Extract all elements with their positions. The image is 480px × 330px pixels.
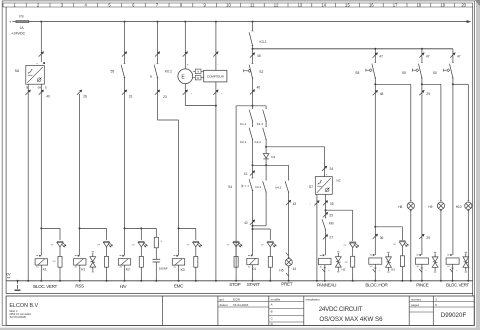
svg-text:16: 16 bbox=[369, 2, 374, 7]
junction bbox=[40, 227, 42, 229]
svg-text:S9: S9 bbox=[402, 71, 406, 75]
relay coil K2 bbox=[118, 259, 130, 265]
resistor K3 bbox=[194, 256, 198, 267]
svg-text:numero: numero bbox=[411, 297, 422, 301]
junction bbox=[124, 21, 126, 23]
wire K3 top bbox=[157, 22, 159, 64]
LED K3 bbox=[193, 240, 199, 242]
wire motor top bbox=[184, 22, 186, 69]
suppressor H2 bbox=[337, 253, 339, 257]
svg-text:C: C bbox=[271, 317, 273, 321]
svg-text:47: 47 bbox=[426, 55, 430, 59]
svg-text:K2.2: K2.2 bbox=[255, 140, 262, 144]
relay coil K8 bbox=[446, 258, 459, 264]
contact K2.1 bbox=[252, 126, 253, 128]
svg-text:COMPTEUR: COMPTEUR bbox=[207, 75, 225, 79]
junction led branch bbox=[374, 226, 376, 228]
junction bbox=[235, 280, 237, 282]
suppressor bbox=[465, 253, 467, 257]
slash mark bbox=[374, 267, 376, 269]
svg-text:Tel 070-00005: Tel 070-00005 bbox=[9, 315, 26, 319]
marks above H5 bbox=[286, 253, 289, 256]
svg-text:47: 47 bbox=[379, 55, 383, 59]
COMPTEUR box bbox=[204, 70, 227, 82]
xref arrow bbox=[39, 90, 44, 95]
svg-text:B: B bbox=[150, 74, 152, 78]
suppressor bbox=[434, 253, 436, 257]
svg-text:27: 27 bbox=[330, 236, 334, 240]
svg-text:K0.2: K0.2 bbox=[165, 70, 172, 74]
suppressor bbox=[388, 253, 390, 257]
wire jog bbox=[158, 119, 179, 121]
wire K3.1 bbox=[252, 22, 254, 31]
rail 2 (after K3.1) bbox=[253, 48, 453, 50]
junction bbox=[324, 280, 326, 282]
xref arrow 34 bbox=[322, 166, 327, 171]
switch S0 bbox=[452, 62, 454, 64]
wire motor bottom bbox=[184, 84, 186, 106]
xref arrow bbox=[314, 201, 319, 206]
junction lamp branch bbox=[452, 83, 454, 85]
relay coil K3 bbox=[172, 259, 184, 265]
pret led branch bbox=[252, 228, 254, 230]
svg-text:K1.2: K1.2 bbox=[257, 122, 264, 126]
svg-text:29: 29 bbox=[426, 236, 430, 240]
svg-text:46: 46 bbox=[257, 86, 261, 90]
wire from SA 0L bbox=[27, 84, 29, 281]
branch wire to K1 LED bbox=[41, 227, 60, 229]
svg-text:FS: FS bbox=[19, 15, 24, 19]
svg-text:15: 15 bbox=[345, 2, 350, 7]
split junction bbox=[252, 105, 254, 107]
svg-text:H2: H2 bbox=[342, 268, 346, 272]
contact K1.2 bbox=[266, 108, 267, 110]
svg-text:40: 40 bbox=[46, 94, 50, 98]
svg-text:D: D bbox=[271, 322, 273, 326]
junction bbox=[252, 225, 254, 227]
svg-text:H9: H9 bbox=[428, 205, 432, 209]
junction bbox=[252, 280, 254, 282]
svg-text:100NF: 100NF bbox=[159, 267, 168, 271]
contact branch left bbox=[252, 106, 254, 109]
svg-text:-: - bbox=[218, 62, 219, 66]
power supply SA bbox=[26, 66, 45, 85]
junction bbox=[178, 280, 180, 282]
contact k4.2 bbox=[288, 179, 289, 181]
svg-text:get.: get. bbox=[220, 297, 225, 301]
contact K3.1 bbox=[252, 30, 254, 32]
sensor box S7 bbox=[315, 177, 332, 195]
relay coil K4 bbox=[247, 258, 258, 264]
wire below H5 bbox=[288, 266, 290, 281]
branch wire to K3 LED bbox=[179, 227, 196, 229]
lamp H10 bbox=[465, 202, 472, 209]
0V rail bbox=[6, 280, 473, 282]
xref arrow bbox=[373, 90, 378, 95]
svg-text:15-04-2016: 15-04-2016 bbox=[233, 303, 249, 307]
wire K2 mid bbox=[124, 78, 126, 256]
junction bbox=[316, 280, 318, 282]
contact KM bbox=[325, 217, 326, 219]
svg-text:44: 44 bbox=[293, 267, 297, 271]
xref arrow 43 bbox=[286, 200, 291, 205]
svg-text:datum: datum bbox=[220, 303, 229, 307]
junction bbox=[421, 280, 423, 282]
LED K1 bbox=[57, 240, 63, 242]
svg-text:+24VDC: +24VDC bbox=[11, 31, 25, 35]
svg-text:35: 35 bbox=[330, 202, 334, 206]
resistor PRET bbox=[268, 256, 272, 267]
svg-text:K2.1: K2.1 bbox=[240, 140, 247, 144]
wire from rail2 bbox=[421, 49, 423, 63]
svg-text:GP: GP bbox=[97, 245, 101, 247]
svg-text:+: + bbox=[36, 61, 38, 65]
junction bbox=[59, 280, 61, 282]
svg-text:31: 31 bbox=[129, 95, 133, 99]
drawing frame bbox=[5, 7, 7, 294]
svg-text:S8: S8 bbox=[355, 71, 359, 75]
junction bbox=[40, 280, 42, 282]
relay coil K7 bbox=[415, 258, 428, 264]
junction bbox=[467, 280, 469, 282]
svg-text:11: 11 bbox=[250, 2, 255, 7]
junction bbox=[440, 280, 442, 282]
junction bbox=[352, 280, 354, 282]
junction bbox=[374, 48, 376, 50]
junction bbox=[374, 280, 376, 282]
xref arrow 47 bbox=[419, 53, 424, 58]
slash mark bbox=[324, 267, 326, 269]
resistor H1 bbox=[104, 256, 108, 267]
relay coil K6 bbox=[369, 258, 382, 264]
channel BLOC VERT right bbox=[452, 49, 454, 63]
contact k4.1 bbox=[266, 179, 267, 181]
junction bbox=[140, 280, 142, 282]
svg-text:2952 CJ Lemuiden: 2952 CJ Lemuiden bbox=[9, 312, 31, 316]
svg-text:ELCON B.V: ELCON B.V bbox=[9, 303, 38, 309]
xref arrow 35 bbox=[323, 201, 328, 206]
slash mark bbox=[451, 267, 453, 269]
svg-text:42: 42 bbox=[244, 221, 248, 225]
wire K2 top bbox=[124, 22, 126, 64]
xref arrow bbox=[155, 52, 160, 57]
junction bbox=[325, 209, 327, 211]
svg-text:BLOC. VERT: BLOC. VERT bbox=[446, 282, 469, 287]
wire below H1 bbox=[79, 265, 81, 281]
xref arrow 47 bbox=[450, 53, 455, 58]
svg-text:D1: D1 bbox=[271, 155, 275, 159]
svg-text:29: 29 bbox=[426, 92, 430, 96]
svg-text:GP: GP bbox=[186, 245, 190, 247]
panneau feed wire bbox=[266, 146, 325, 148]
junction bbox=[184, 21, 186, 23]
junction bbox=[288, 280, 290, 282]
svg-text:20: 20 bbox=[461, 2, 466, 7]
svg-text:A: A bbox=[271, 303, 273, 307]
wire H1 bbox=[79, 94, 81, 256]
xref arrow bbox=[419, 90, 424, 95]
capacitor 100NF bbox=[153, 258, 161, 260]
svg-text:GP: GP bbox=[51, 245, 55, 247]
xref arrow bbox=[183, 52, 188, 57]
latch bus bbox=[253, 164, 289, 166]
junction bbox=[79, 227, 81, 229]
svg-text:installation: installation bbox=[306, 298, 321, 302]
main wire down bbox=[421, 84, 423, 255]
svg-text:K1: K1 bbox=[43, 267, 47, 271]
svg-text:PRET: PRET bbox=[281, 281, 292, 286]
svg-text:GP: GP bbox=[393, 244, 397, 246]
lamp H5 bbox=[285, 259, 292, 266]
junction bbox=[401, 280, 403, 282]
branch to panneau LED bbox=[326, 209, 353, 211]
xref arrow bbox=[373, 234, 378, 239]
LED bbox=[399, 240, 405, 242]
svg-text:GR: GR bbox=[52, 261, 56, 263]
svg-text:PINCE: PINCE bbox=[416, 282, 429, 287]
xref arrow 26 bbox=[77, 90, 82, 95]
junction bbox=[155, 280, 157, 282]
svg-text:S4: S4 bbox=[228, 185, 232, 189]
wire S7 out 35 bbox=[325, 194, 327, 218]
junction bbox=[124, 280, 126, 282]
svg-text:BLOC. VERT: BLOC. VERT bbox=[33, 284, 57, 289]
svg-text:14: 14 bbox=[321, 2, 326, 7]
xref arrow 45 bbox=[250, 53, 255, 58]
junction bbox=[215, 280, 217, 282]
slash mark bbox=[421, 267, 423, 269]
svg-text:KM: KM bbox=[329, 222, 334, 226]
svg-text:K1.1: K1.1 bbox=[240, 122, 247, 126]
junction bbox=[452, 280, 454, 282]
svg-text:43: 43 bbox=[293, 202, 297, 206]
junction bbox=[106, 280, 108, 282]
svg-text:EMC: EMC bbox=[174, 283, 184, 288]
svg-text:OS/OSX MAX 4KW S6: OS/OSX MAX 4KW S6 bbox=[319, 316, 383, 323]
junction bbox=[79, 280, 81, 282]
svg-text:ECW: ECW bbox=[233, 297, 240, 301]
svg-text:H8: H8 bbox=[398, 205, 402, 209]
svg-text:13: 13 bbox=[298, 2, 303, 7]
xref arrow 23 bbox=[155, 90, 160, 95]
junction bbox=[252, 164, 254, 166]
LED panneau bbox=[350, 241, 356, 243]
svg-text:SA: SA bbox=[15, 69, 20, 73]
svg-text:BLOC. HOR: BLOC. HOR bbox=[365, 282, 388, 287]
svg-text:26: 26 bbox=[83, 94, 87, 98]
gray margin bottom bbox=[0, 328, 480, 330]
junction panneau feed bbox=[265, 146, 267, 148]
junction bbox=[252, 48, 254, 50]
junction lamp branch bbox=[421, 83, 423, 85]
svg-text:k4.2: k4.2 bbox=[276, 185, 282, 189]
xref arrow bbox=[39, 52, 44, 57]
xref arrow 42 bbox=[250, 220, 255, 225]
resistor snubber bbox=[154, 237, 158, 248]
relay coil K1 bbox=[35, 259, 47, 265]
junction bbox=[157, 21, 159, 23]
xref arrow bbox=[183, 90, 188, 95]
svg-text:K3: K3 bbox=[181, 268, 185, 272]
svg-text:pages: pages bbox=[411, 303, 420, 307]
junction bbox=[215, 21, 217, 23]
svg-text:48: 48 bbox=[380, 92, 384, 96]
svg-text:23: 23 bbox=[163, 95, 167, 99]
contact k4.1 wire bbox=[265, 165, 267, 180]
svg-text:S2: S2 bbox=[259, 70, 263, 74]
xref arrow 46 bbox=[250, 90, 255, 95]
branch wire to K2 LED bbox=[125, 227, 157, 229]
LED PRET bbox=[267, 240, 273, 242]
svg-text:START: START bbox=[247, 282, 260, 287]
pushbutton S4 contact bbox=[252, 177, 254, 179]
svg-text:GP: GP bbox=[343, 245, 347, 247]
svg-text:PANNEAU: PANNEAU bbox=[317, 282, 336, 287]
svg-text:H1: H1 bbox=[81, 267, 85, 271]
switch S9 bbox=[421, 62, 423, 64]
junction bbox=[421, 48, 423, 50]
svg-text:k4.1: k4.1 bbox=[255, 185, 261, 189]
junction bbox=[40, 21, 42, 23]
wire S7 minus bbox=[316, 194, 318, 280]
resistor panneau bbox=[351, 256, 355, 267]
junction bbox=[27, 280, 29, 282]
svg-text:45: 45 bbox=[257, 54, 261, 58]
svg-text:41: 41 bbox=[244, 172, 248, 176]
xref arrow 25 bbox=[323, 212, 328, 217]
contact branch right bbox=[265, 106, 267, 109]
xref arrow 41 bbox=[250, 171, 255, 176]
contact K2.2 bbox=[266, 126, 267, 128]
svg-text:NC: NC bbox=[336, 179, 341, 183]
ground bbox=[17, 281, 19, 284]
main wire down bbox=[452, 84, 454, 255]
junction bbox=[265, 164, 267, 166]
svg-text:RSS: RSS bbox=[75, 283, 84, 288]
svg-text:55: 55 bbox=[111, 69, 115, 73]
lamp H9 bbox=[437, 202, 444, 209]
svg-text:10: 10 bbox=[226, 2, 231, 7]
xref arrow bbox=[213, 52, 218, 57]
junction bbox=[124, 227, 126, 229]
svg-text:34: 34 bbox=[330, 167, 334, 171]
LED STOP bbox=[233, 240, 239, 242]
svg-text:17: 17 bbox=[393, 2, 398, 7]
svg-text:GP: GP bbox=[132, 245, 136, 247]
snubber branch wire bbox=[155, 228, 157, 237]
junction bbox=[178, 227, 180, 229]
svg-text:12: 12 bbox=[274, 2, 279, 7]
wire from rail2 bbox=[374, 49, 376, 63]
xref arrow 47 bbox=[373, 53, 378, 58]
svg-text:18: 18 bbox=[417, 2, 422, 7]
svg-text:GR: GR bbox=[345, 262, 349, 264]
svg-text:GP: GP bbox=[261, 245, 265, 247]
svg-text:modifie: modifie bbox=[271, 298, 281, 302]
junction bbox=[410, 280, 412, 282]
lamp H8 bbox=[407, 202, 414, 209]
resistor bbox=[400, 256, 404, 267]
title block frame bbox=[6, 296, 474, 325]
gray margin right bbox=[476, 0, 480, 330]
svg-text:0H: 0H bbox=[38, 85, 41, 89]
diode D1 bbox=[263, 154, 269, 159]
svg-text:0V: 0V bbox=[7, 273, 12, 277]
LED K2 bbox=[138, 240, 144, 242]
junction bbox=[140, 227, 142, 229]
junction bbox=[17, 280, 19, 282]
wire K3 mid bbox=[157, 78, 159, 121]
wire COMPTEUR bbox=[215, 22, 217, 71]
svg-text:H10: H10 bbox=[456, 205, 462, 209]
svg-text:D99020F: D99020F bbox=[441, 312, 467, 319]
xref arrow bbox=[26, 90, 31, 95]
svg-text:K3.1: K3.1 bbox=[260, 40, 267, 44]
contact K1.1 bbox=[252, 108, 253, 110]
main wire down bbox=[374, 84, 376, 255]
xref arrow 27 bbox=[323, 235, 328, 240]
svg-text:47: 47 bbox=[457, 55, 461, 59]
column header strip bbox=[3, 2, 473, 4]
wire k4.2 bbox=[288, 165, 290, 180]
svg-text:B: B bbox=[271, 310, 273, 314]
xref arrow bbox=[419, 234, 424, 239]
wire from SA 0H bbox=[40, 84, 42, 255]
junction bbox=[215, 105, 217, 107]
motor E bbox=[178, 69, 193, 84]
svg-text:H3: H3 bbox=[391, 267, 395, 271]
svg-text:H5: H5 bbox=[279, 269, 283, 273]
junction bbox=[252, 21, 254, 23]
corner mark top-right bbox=[475, 0, 480, 6]
xref arrow bbox=[213, 90, 218, 95]
branch wire to H1 LED bbox=[80, 227, 107, 229]
svg-text:-: - bbox=[310, 202, 311, 206]
wire below K1 bbox=[40, 265, 42, 281]
A B link boxes bbox=[195, 69, 201, 73]
xref arrow bbox=[122, 52, 127, 57]
LED H1 bbox=[103, 240, 109, 242]
svg-text:19: 19 bbox=[440, 2, 445, 7]
svg-text:S: S bbox=[45, 85, 47, 89]
svg-text:K2: K2 bbox=[126, 267, 130, 271]
stop wire S4 bbox=[235, 106, 237, 281]
xref arrow 31 bbox=[122, 90, 127, 95]
svg-text:36: 36 bbox=[380, 236, 384, 240]
resistor K2 bbox=[139, 256, 143, 267]
switch S8 bbox=[375, 62, 377, 64]
svg-text:24VDC CIRCUIT: 24VDC CIRCUIT bbox=[319, 306, 363, 313]
relay coil H1 bbox=[74, 259, 86, 265]
junction lamp branch bbox=[374, 83, 376, 85]
resistor STOP bbox=[234, 256, 238, 267]
svg-text:E: E bbox=[181, 75, 185, 81]
svg-text:-: - bbox=[33, 86, 34, 89]
junction bbox=[195, 280, 197, 282]
resistor K1 bbox=[58, 256, 62, 267]
wire SA input bbox=[40, 22, 42, 62]
svg-text:GP: GP bbox=[227, 245, 231, 247]
+24VDC rail bbox=[29, 21, 467, 23]
svg-text:S0: S0 bbox=[433, 71, 437, 75]
svg-text:+: + bbox=[9, 20, 11, 24]
svg-text:25: 25 bbox=[329, 213, 333, 217]
start wire bbox=[252, 165, 254, 178]
pushbutton S2 bbox=[252, 63, 254, 65]
svg-text:STOP: STOP bbox=[229, 282, 240, 287]
relay coil panneau bbox=[319, 258, 331, 264]
junction bbox=[269, 280, 271, 282]
